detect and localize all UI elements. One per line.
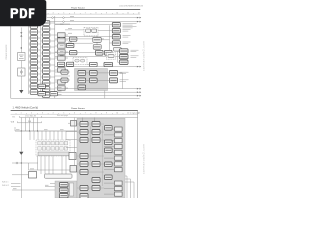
wire W7b — [110, 42, 113, 44]
wire short right of bus 1 — [55, 23, 70, 25]
wire stub right fuse A2 — [37, 31, 40, 33]
relay P1-2 in panel — [90, 71, 98, 76]
wire to P2-R1 — [104, 128, 115, 130]
relay P2-A7 — [80, 186, 88, 191]
fuse A10 — [30, 78, 37, 83]
J/B terminal r2t5 — [55, 147, 58, 150]
vertical wire right of CP2 — [118, 73, 123, 89]
wire stub right C1 — [65, 34, 68, 36]
wire into panel row 1 — [66, 131, 77, 133]
wire W14 long with end arrow — [55, 66, 141, 68]
relay P2-B4 — [92, 162, 100, 167]
wire stub right fuse B6 — [50, 52, 55, 54]
connector CL1 — [71, 121, 77, 127]
fuse B11 — [42, 81, 49, 86]
ground G1 — [19, 90, 23, 93]
connector pair marker — [20, 32, 22, 36]
wire stub left C8 — [55, 87, 58, 89]
wire stub left C3 — [55, 45, 58, 47]
fuse B8 — [42, 63, 49, 68]
wire drop D3 — [29, 118, 31, 132]
svg-text:1. 4WD Vehicle (Cont’d): 1. 4WD Vehicle (Cont’d) — [13, 107, 39, 110]
relay P2-C1 — [105, 126, 113, 131]
junction block panel P2 (Driver Side J/B) — [77, 118, 125, 198]
fuse B5 — [42, 45, 49, 50]
relay P2-A3 — [80, 138, 88, 143]
wire stub right fuse A6 — [37, 55, 40, 57]
wire into panel row 3 — [66, 147, 77, 149]
wire exit panel 2 — [125, 179, 131, 198]
right frame border bottom section — [137, 111, 139, 199]
panel P3 side bar — [70, 183, 74, 196]
connector R2a — [93, 37, 101, 42]
wire code labels bottom section — [13, 130, 64, 189]
top ruler line with column ticks — [11, 12, 141, 14]
connector CP2 right of panel — [110, 70, 118, 75]
svg-text:POWER SOURCE: POWER SOURCE — [6, 44, 8, 60]
label text for CG1 — [131, 50, 139, 52]
connector P2-R9 — [115, 181, 123, 185]
wire stub left fuse A1 — [29, 25, 31, 27]
svg-text:W-B IJ 1: W-B IJ 1 — [2, 182, 8, 184]
connector P2-R8 — [115, 168, 123, 172]
fuse D3 — [90, 62, 98, 66]
fuse D2 — [70, 51, 77, 55]
wire exit panel 1 — [125, 176, 127, 198]
fuse block C2 — [58, 38, 66, 42]
fuse D1 — [70, 37, 77, 41]
fuse block C8 — [58, 86, 66, 90]
fuse D4 — [58, 62, 65, 66]
svg-text:9: 9 — [106, 113, 107, 115]
wire W6 to connector row3 — [65, 36, 112, 38]
svg-text:2004 4RUNNER (EWD533: 2004 4RUNNER (EWD533 — [119, 5, 144, 7]
wire stub left C6 — [55, 69, 58, 71]
J/B terminal r1t6 — [60, 142, 63, 145]
panel wire row 2 — [77, 131, 104, 133]
fuse A3 — [30, 36, 37, 41]
wire CL1 to panel — [76, 122, 79, 124]
wire stub left fuse A7 — [29, 61, 31, 63]
wire stub left fuse A12 — [29, 91, 31, 93]
wire below J/B 4 — [52, 156, 54, 174]
fuse block C5 — [58, 56, 66, 60]
connector right of J/B — [69, 153, 76, 160]
wire stub right fuse A5 — [37, 49, 40, 51]
wire short right of bus 3 — [55, 75, 70, 77]
fuse block C1 — [58, 33, 66, 37]
wire stub left fuse A11 — [29, 85, 31, 87]
wire panel to CP2 — [108, 72, 110, 74]
svg-text:11: 11 — [127, 12, 129, 14]
wire stub left fuse A6 — [29, 55, 31, 57]
fusible link block FL MAIN — [18, 68, 25, 76]
connector CT4 — [112, 41, 120, 46]
bus tie y170 — [29, 169, 78, 171]
wire below J/B 6 — [65, 156, 67, 174]
connector R2b — [93, 45, 101, 50]
J/B terminal r2t7 — [64, 147, 67, 150]
wire W4 into relay R1 — [65, 29, 84, 31]
relay R5 (dashed) with fuse — [107, 53, 116, 59]
connector P2-R10 — [115, 187, 123, 191]
wire drop to J/B 6 — [49, 131, 51, 140]
svg-text:4: 4 — [53, 113, 54, 115]
relay P2-B3 — [92, 138, 100, 143]
bracket with label — [20, 116, 42, 118]
connector P3-2 — [60, 188, 69, 192]
J/B terminal r1t3 — [47, 142, 50, 145]
relay P1-1 in panel — [78, 71, 86, 76]
wire stub right fuse B12 — [50, 88, 55, 90]
wire stub right fuse B8 — [50, 64, 55, 66]
relay P2-B1 — [92, 122, 100, 127]
wire below J/B 5 — [61, 156, 63, 174]
left frame border — [10, 10, 12, 99]
wire code labels top section — [58, 16, 74, 94]
connector CT1 — [112, 23, 120, 28]
fuse B2 — [42, 27, 49, 32]
wire to P2-R9 — [104, 182, 115, 184]
panel wire row 6 — [77, 171, 104, 173]
wire ground rail to bottom — [20, 155, 22, 198]
fuse B7 — [42, 57, 49, 62]
wire bottom frame line — [11, 97, 140, 99]
vertical tie line right of relays — [109, 25, 111, 54]
wire into CL1 — [68, 122, 71, 124]
fuse A9 — [30, 72, 37, 77]
note mid — [57, 114, 68, 117]
connector P3-3 — [60, 194, 69, 198]
fuse A4 — [30, 42, 37, 47]
wire stub left fuse B9 — [41, 70, 43, 72]
wire bus feed right drop — [74, 118, 76, 166]
wire stub left fuse A4 — [29, 43, 31, 45]
wire stub left fuse B13 — [41, 94, 43, 96]
connector CG2 — [120, 54, 129, 59]
wire drop to J/B 4 — [41, 131, 43, 140]
bus tie upstub — [28, 163, 30, 170]
label text CP3 — [120, 80, 129, 82]
junction block J/B outline (dashed) — [36, 140, 70, 156]
fuse A5 — [30, 48, 37, 53]
J/B terminal r2t3 — [47, 147, 50, 150]
junction on bus x=37.5 — [37, 130, 38, 131]
fuse block C3 — [58, 44, 66, 48]
wire WL2 lower long — [58, 91, 142, 93]
connector P2-R5 — [115, 150, 123, 154]
wire battery feed upper — [20, 28, 22, 53]
wire stub right fuse B13 — [50, 94, 55, 96]
wire stub right fuse A1 — [37, 25, 40, 27]
panel wire row 5 — [77, 163, 104, 165]
wire stub left C4 — [55, 51, 58, 53]
wire exit panel 3 — [125, 182, 134, 198]
fuse A6 — [30, 54, 37, 59]
relay P2-A2 — [80, 130, 88, 135]
top header rule — [11, 9, 141, 11]
second bracket with label — [18, 121, 42, 123]
svg-text:10: 10 — [116, 113, 118, 115]
J/B terminal r1t4 — [51, 142, 54, 145]
svg-text:B 1: B 1 — [13, 116, 16, 118]
panel wire row 1 — [77, 123, 104, 125]
relay P2-B6 — [92, 186, 100, 191]
wire to P2-R2 — [104, 134, 115, 136]
wire W10 — [55, 52, 96, 54]
relay R1 (dashed) — [84, 27, 98, 36]
label text for CT4 — [123, 42, 131, 43]
connector CT5 small — [113, 47, 121, 51]
junction block panel P3 — [55, 181, 77, 198]
battery B1 — [18, 53, 25, 61]
wire stub right C2 — [65, 39, 68, 41]
wire stub left fuse B1 — [41, 22, 43, 24]
fuse D10 — [61, 78, 68, 82]
svg-text:4: 4 — [53, 12, 54, 14]
wire stub right fuse B9 — [50, 70, 55, 72]
wire stub left C7 — [55, 81, 58, 83]
wire to P2-R3 — [104, 140, 115, 142]
wire stub left fuse B6 — [41, 52, 43, 54]
wire drop D5 — [37, 118, 39, 132]
relay P2-C2 — [105, 140, 113, 145]
wire to P2-R7 — [104, 163, 115, 165]
wire stub right C5 — [65, 57, 68, 59]
J/B terminal r2t6 — [60, 147, 63, 150]
svg-text:12: 12 — [138, 12, 140, 14]
svg-text:carmanuals2.com: carmanuals2.com — [142, 144, 146, 174]
wire to P2-R4 — [104, 146, 115, 148]
fuse block C4 — [58, 50, 66, 54]
J/B terminal r1t7 — [64, 142, 67, 145]
wire WL1 lower long — [58, 88, 142, 90]
connector CL2 — [70, 166, 77, 173]
wire W8 into relay R2 — [65, 42, 93, 44]
wire stub left fuse B5 — [41, 46, 43, 48]
fuse A8 — [30, 66, 37, 71]
wire bottom horizontal y190 — [12, 189, 55, 191]
wire stub right fuse B5 — [50, 46, 55, 48]
fuse B9 — [42, 69, 49, 74]
fuse E2 — [38, 92, 45, 96]
wire stub left fuse A8 — [29, 67, 31, 69]
label text CP2 — [120, 72, 129, 74]
connector CT3 — [112, 35, 120, 40]
vertical drop from panel P1 — [104, 91, 106, 99]
connector strip CS1 — [45, 174, 73, 178]
wire stub right fuse A4 — [37, 43, 40, 45]
wire horizontal tie y163 — [12, 162, 38, 164]
wire bracket across panel P2 — [42, 117, 138, 119]
J/B terminal r1t5 — [55, 142, 58, 145]
wire stub left fuse B7 — [41, 58, 43, 60]
wire stub right C7 — [65, 81, 68, 83]
wire into panel row 2 — [66, 139, 77, 141]
bus left upstub — [14, 127, 16, 131]
label text for CT3 — [123, 36, 131, 37]
fuse A2 — [30, 30, 37, 35]
wire battery to fusible link — [20, 61, 22, 69]
wire W12b into relay R5 — [55, 56, 107, 58]
tiny code text 1 — [2, 182, 8, 184]
wire to P2-R6 — [104, 157, 115, 159]
label text for CT1 — [123, 24, 137, 28]
relay P2-C4 — [105, 162, 113, 167]
relay P2-A5 — [80, 162, 88, 167]
wire CL2 to panel — [76, 168, 79, 170]
wire drop to J/B 1 — [29, 131, 31, 140]
fuse D9 — [61, 70, 68, 74]
wire stub left fuse A10 — [29, 79, 31, 81]
wire W13 — [87, 63, 90, 65]
wire W5 relay R1 to connector row2 — [95, 30, 113, 32]
wire drop D4 — [33, 118, 35, 132]
J/B hatched strip — [38, 152, 69, 156]
wire stub left fuse A5 — [29, 49, 31, 51]
relay P1-3 in panel — [78, 78, 86, 83]
bus rail B — [40, 16, 42, 96]
wire stub right fuse A12 — [37, 91, 40, 93]
fuse A7 — [30, 60, 37, 65]
wire stub right fuse B3 — [50, 34, 55, 36]
wire short right of bus 4 — [55, 79, 70, 81]
svg-text:9: 9 — [106, 12, 107, 14]
inline connector CN5 — [104, 62, 113, 66]
relay R4 — [29, 172, 37, 179]
PDF badge — [0, 0, 46, 26]
fuse E3 — [50, 92, 57, 96]
relay P2-A1 — [80, 122, 88, 127]
wire stub right fuse B1 — [50, 22, 55, 24]
svg-text:11: 11 — [127, 113, 129, 115]
fuse B12 — [42, 87, 49, 92]
fuse B4 — [42, 39, 49, 44]
relay R3 (dashed) — [73, 58, 87, 65]
wire stub left C1 — [55, 34, 58, 36]
fuse E1 — [38, 84, 45, 88]
bottom header rule — [11, 110, 138, 112]
wire stub left fuse A3 — [29, 37, 31, 39]
svg-text:Power Source: Power Source — [71, 107, 86, 110]
connector CG1 — [120, 49, 129, 54]
wire stub left C5 — [55, 57, 58, 59]
relay P2-B5 — [92, 178, 100, 183]
junction on bus x=29.5 — [29, 130, 30, 131]
connector P2-R4 — [115, 144, 123, 148]
wire drop D2 — [25, 118, 27, 132]
fuse D5 — [67, 62, 74, 66]
wire to P2-R11 — [104, 193, 115, 195]
main bus bottom section — [15, 130, 77, 132]
connector CP1a — [96, 50, 104, 55]
connector CG3 — [120, 60, 129, 65]
fuse B10 — [42, 75, 49, 80]
wire stub left fuse B4 — [41, 40, 43, 42]
ground G2 — [19, 152, 23, 155]
tiny code text 2 — [2, 185, 9, 187]
vertical link below relay R1 — [96, 36, 98, 47]
wire to P2-R10 — [104, 188, 115, 190]
wire drop D1 — [20, 118, 22, 132]
wire into relay R4 — [12, 174, 29, 176]
wire W1 top — [47, 17, 141, 19]
svg-text:See next page: See next page — [57, 114, 68, 117]
wire stub right fuse B2 — [50, 28, 55, 30]
connector CP1b — [105, 50, 113, 55]
wire stub right C3 — [65, 45, 68, 47]
relay P2-C3 — [105, 148, 113, 153]
junction node A — [21, 47, 22, 48]
wire stub left fuse B3 — [41, 34, 43, 36]
panel wire row 3 — [77, 139, 104, 141]
relay P2-C5 — [105, 175, 113, 180]
wire branch to CG stack — [116, 51, 120, 62]
connector P2-R11 — [115, 192, 123, 196]
relay P1-4 in panel — [90, 78, 98, 83]
wire below J/B 2 — [44, 156, 46, 174]
wire drop to J/B 8 — [57, 131, 59, 140]
wire W9 — [101, 39, 109, 41]
J/B terminal r1t2 — [42, 142, 45, 145]
wire stub right C6 — [65, 69, 68, 71]
fuse A11 — [30, 84, 37, 89]
wire stub right fuse B10 — [50, 76, 55, 78]
panel wire row 4 — [77, 155, 104, 157]
wire stub left fuse A9 — [29, 73, 31, 75]
connector CP3 right of panel — [110, 78, 118, 83]
relay P1-5 in panel — [78, 85, 86, 90]
wire to P2-R8 — [104, 169, 115, 171]
wire stub left fuse B11 — [41, 82, 43, 84]
wire drop to J/B 9 — [61, 131, 63, 140]
J/B terminal r1t1 — [38, 142, 41, 145]
wire to ground — [20, 76, 22, 90]
fuse B1 — [42, 21, 49, 26]
wire W2 — [47, 21, 141, 23]
J/B terminal r2t2 — [42, 147, 45, 150]
wire to P2-R5 — [104, 151, 115, 153]
svg-text:5: 5 — [63, 12, 64, 14]
bottom ruler line with ticks — [11, 113, 140, 115]
wire drop to J/B 3 — [37, 131, 39, 140]
wire color label W-B — [11, 122, 15, 124]
wire below J/B 1 — [40, 156, 42, 174]
relay P2-B2 — [92, 130, 100, 135]
wire J/B right drop — [37, 156, 39, 170]
label text for CG2 — [131, 56, 139, 58]
fuse A12 — [30, 90, 37, 95]
fuse block C6 — [58, 68, 66, 72]
fuse B6 — [42, 51, 49, 56]
wire stub left fuse B2 — [41, 28, 43, 30]
wire drop to J/B 5 — [45, 131, 47, 140]
svg-text:5: 5 — [63, 113, 64, 115]
relay P2-A8 — [80, 194, 88, 199]
wire below J/B 3 — [48, 156, 50, 174]
wire stub left fuse B8 — [41, 64, 43, 66]
wire short right of bus 2 — [55, 71, 70, 73]
svg-text:10: 10 — [116, 12, 118, 14]
wire W3 to connector row1 — [55, 24, 113, 26]
wire WL3 lower long — [58, 95, 142, 97]
connector CT2 — [112, 29, 120, 34]
fuse D1b — [67, 44, 74, 48]
wire code stub 1 — [11, 182, 21, 184]
connector P2-R7 — [115, 162, 123, 166]
page background — [0, 0, 149, 198]
node label B1 — [13, 116, 16, 118]
